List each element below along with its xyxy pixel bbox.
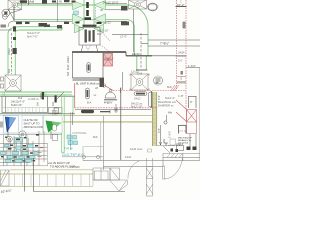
small grid box x52-57 [53, 111, 58, 117]
svg-text:24x12x7'-0": 24x12x7'-0" [11, 100, 25, 104]
green vertical pipe x73 [72, 95, 74, 114]
svg-text:8": 8" [190, 100, 193, 104]
small box bottom [177, 134, 197, 151]
svg-text:9'-6": 9'-6" [158, 128, 161, 133]
svg-text:1'-6⅝": 1'-6⅝" [188, 64, 196, 68]
vertical duct right: center dashed line and joints [112, 33, 148, 70]
diffuser A (top-left box with X) [8, 0, 22, 10]
vertical wall stub x83 [82, 147, 84, 161]
dimension verticals + line [25, 158, 126, 192]
teal boxes mid (67-78,134-146) [67, 135, 78, 145]
room box below wall A [73, 53, 104, 78]
capsule small x87-90 y63-72 [87, 63, 91, 73]
junction green bowties (x 72-106) [73, 1, 106, 34]
red dashed line 2 (y108) [75, 107, 158, 109]
capsule tag [81, 110, 94, 113]
svg-text:24x14: 24x14 [176, 142, 184, 146]
svg-text:SHUT UP TO: SHUT UP TO [24, 122, 40, 126]
svg-text:12x6 xxxx: 12x6 xxxx [130, 147, 143, 151]
magenta flex lines [86, 7, 111, 52]
svg-text:8x6: 8x6 [52, 101, 55, 106]
svg-text:24x12: 24x12 [8, 48, 11, 55]
svg-text:1'-0⅞": 1'-0⅞" [169, 131, 172, 138]
red hatched demo box [104, 54, 113, 67]
svg-text:TYP. W: TYP. W [64, 147, 73, 151]
damper marks on duct3 [42, 92, 44, 100]
khaki wall band vertical [152, 92, 157, 146]
wall hatch marks right [167, 154, 182, 158]
svg-text:CHUTE OR: CHUTE OR [24, 118, 38, 122]
wall line A (y52) [72, 51, 126, 53]
diffuser B (left, on vertical duct) [5, 75, 21, 91]
vertical duct left center dashed [11, 33, 13, 74]
svg-text:1'-8": 1'-8" [178, 94, 184, 98]
svg-text:24x12 13'-3": 24x12 13'-3" [103, 1, 119, 5]
svg-text:⊥ M: ⊥ M [56, 0, 62, 4]
svg-text:1½": 1½" [178, 59, 183, 63]
supply duct run 1 (top horizontal, green) [14, 5, 127, 20]
keynote tag left gray box [0, 122, 5, 128]
svg-text:TO ABV: TO ABV [70, 165, 80, 169]
junction vertical duct edges [84, 0, 94, 28]
svg-text:5x40'-10": 5x40'-10" [11, 103, 22, 107]
svg-text:10'-2": 10'-2" [177, 3, 185, 7]
svg-text:8x6: 8x6 [93, 135, 98, 139]
wall y78-80 with corner block [73, 78, 105, 87]
svg-text:24x12: 24x12 [132, 52, 140, 56]
svg-text:5x8x12': 5x8x12' [104, 57, 114, 61]
svg-text:CUSTODIAL: CUSTODIAL [72, 131, 87, 135]
dimension line with arrow x160.5 [160, 125, 162, 145]
door arc 1 (left door) [128, 161, 140, 179]
MECH text block [168, 137, 192, 147]
capsule x85-90 y88-99 [86, 88, 90, 99]
teal pipe with valves to the right [62, 122, 103, 161]
horizontal line at y30 left [0, 29, 12, 31]
chevron double door [93, 168, 128, 191]
olive return band (y115.5-121.5) [63, 116, 152, 123]
column with X braces [146, 149, 153, 196]
svg-text:12'-0": 12'-0" [120, 35, 127, 39]
svg-text:CLG-TYP-8'-0": CLG-TYP-8'-0" [62, 153, 85, 157]
svg-text:12x6: 12x6 [125, 155, 132, 159]
svg-text:5x12'-2": 5x12'-2" [165, 96, 175, 100]
dimension lines right top [148, 40, 200, 46]
column verticals [103, 116, 105, 170]
line under keynotes [0, 133, 62, 135]
svg-text:ABOVE FLOOR: ABOVE FLOOR [24, 125, 43, 129]
diffuser C (top, x128-147) [129, 0, 147, 9]
svg-text:¾"x1'-8": ¾"x1'-8" [104, 102, 113, 105]
svg-text:x8: x8 [95, 86, 98, 90]
black line under duct 3 [0, 96, 75, 98]
vertical green pipe pair x62 [61, 95, 63, 152]
svg-text:C: C [180, 0, 182, 4]
small circle near wall corner [102, 84, 106, 88]
stair box bottom-left [1, 170, 10, 186]
svg-text:5x8: 5x8 [67, 71, 70, 76]
red demo path right [176, 100, 197, 134]
small boxes left margin [1, 77, 4, 88]
svg-text:8L UNIT 8 14x6 xx: 8L UNIT 8 14x6 xx [76, 81, 100, 85]
tag symbol below diffuser A [2, 9, 22, 20]
duct run 3 (horizontal, y92-95) [0, 92, 72, 95]
thin duct run 2 (left, below run1) [20, 27, 63, 30]
black line across red shaft top [176, 6, 187, 8]
hex tag right of diffuser C [147, 3, 158, 11]
svg-text:8x4 7'-0": 8x4 7'-0" [27, 35, 38, 39]
hanger boxes on duct 1 [42, 0, 47, 4]
small symbol marks (40-44,93-99) [41, 93, 43, 99]
bottom wall (right half) [83, 161, 200, 167]
right edge line [198, 68, 200, 160]
svg-text:24x12: 24x12 [134, 98, 141, 101]
top edge text blobs [16, 0, 76, 24]
white pill left of khaki band [148, 92, 152, 107]
black box x178-186 y125-133 [179, 125, 187, 134]
parachute symbol [104, 90, 117, 100]
small band right of plenum [49, 107, 63, 113]
black shaft box top right lower area [189, 96, 197, 108]
svg-text:24/24: 24/24 [178, 51, 185, 55]
svg-text:8x6: 8x6 [18, 96, 23, 100]
svg-text:8x6: 8x6 [37, 101, 40, 106]
leader diagonal top right [163, 146, 170, 153]
svg-text:24x12: 24x12 [67, 56, 70, 63]
red dashed vertical wall x186 [185, 0, 187, 110]
dark blobs below duct1 left [57, 25, 62, 29]
svg-text:24x12: 24x12 [103, 21, 111, 25]
elbow dark outer arc [8, 21, 13, 27]
junction column text blobs [76, 2, 102, 27]
tag capsule under diffuser D [134, 92, 147, 96]
keynote box 3 with green flag [44, 116, 63, 141]
upper wall pair right [163, 154, 200, 167]
elbow fittings dark [13, 26, 17, 54]
door tags top right [171, 147, 197, 153]
thick stub segment y112 [100, 111, 110, 113]
duct run 1 black liner lines [14, 0, 128, 22]
red dashed vertical wall x176.5 [176, 0, 178, 90]
elbow left into vertical duct left [8, 27, 20, 75]
damper box on duct1 [121, 6, 128, 11]
keynote box 1 with blue flag [3, 116, 18, 138]
assorted text blobs [27, 0, 193, 169]
circle tag (x153-163,y75-86) [153, 76, 163, 85]
detail inset piping (teal) [0, 131, 48, 166]
svg-text:14x8: 14x8 [28, 0, 35, 4]
svg-text:30: 30 [100, 8, 104, 12]
leader vertical from diffuser C [133, 9, 135, 52]
red dashed line mid (y90.5) [113, 90, 186, 92]
wall line B (y56) [126, 55, 152, 57]
svg-text:M#: M# [168, 111, 172, 115]
valve symbol at red line [114, 104, 118, 112]
svg-text:DAMPER xx: DAMPER xx [158, 104, 174, 108]
VAV box text [85, 30, 95, 43]
duct run 1 elbow to vertical duct (right) [127, 5, 148, 70]
red diagonal into it [104, 85, 113, 91]
svg-text:8x12: 8x12 [67, 64, 70, 70]
partial symbol top right of diffuser A [23, 0, 31, 5]
svg-text:8x4: 8x4 [8, 68, 11, 73]
diffuser D (x131-148,y74-90) [131, 74, 148, 90]
svg-text:8x12'-10": 8x12'-10" [131, 105, 143, 109]
corridor band bottom [0, 170, 93, 187]
svg-text:8x7: 8x7 [97, 32, 102, 36]
wall line left (y113.8) [0, 113, 75, 115]
red corner ticks diffuser D [130, 74, 149, 90]
svg-text:8x8: 8x8 [167, 85, 172, 89]
red vertical feed [74, 83, 76, 108]
teal small box junction [74, 11, 79, 15]
svg-text:xx 8x6 xx: xx 8x6 xx [28, 97, 40, 101]
VAV box below junction [79, 28, 100, 46]
svg-text:12x12: 12x12 [131, 70, 139, 74]
duct1 left cap dark [13, 5, 15, 22]
keynote box 2 text [22, 116, 43, 134]
rotated texts [8, 48, 172, 138]
pale green line y115 [0, 114, 62, 116]
plenum box left [2, 92, 48, 113]
door leaf + arc 2 [163, 154, 183, 180]
svg-text:7'-8¼": 7'-8¼" [160, 42, 169, 46]
svg-text:B A: B A [87, 101, 91, 105]
VAV leaders to wall [81, 45, 98, 52]
svg-text:9'-6": 9'-6" [158, 95, 161, 100]
